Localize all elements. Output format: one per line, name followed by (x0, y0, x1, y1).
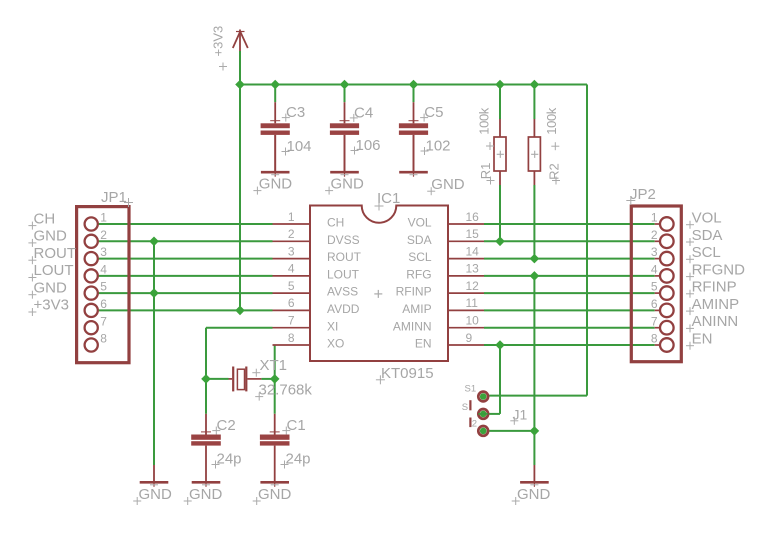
svg-text:RFINP: RFINP (692, 279, 737, 296)
svg-text:GND: GND (259, 176, 293, 193)
svg-text:SDA: SDA (407, 233, 432, 247)
svg-text:6: 6 (100, 297, 107, 311)
svg-text:RFG: RFG (406, 268, 431, 282)
svg-text:JP1: JP1 (101, 189, 127, 206)
svg-text:10: 10 (466, 314, 480, 328)
svg-text:5: 5 (651, 280, 658, 294)
svg-text:GND: GND (189, 486, 223, 503)
svg-text:6: 6 (651, 297, 658, 311)
svg-text:LOUT: LOUT (34, 262, 74, 279)
svg-text:AMIP: AMIP (402, 302, 431, 316)
svg-text:100k: 100k (476, 107, 491, 134)
svg-text:RFINP: RFINP (396, 285, 432, 299)
svg-text:SCL: SCL (408, 250, 432, 264)
svg-text:DVSS: DVSS (327, 233, 360, 247)
svg-text:C2: C2 (217, 417, 236, 434)
svg-text:104: 104 (287, 138, 312, 155)
svg-text:7: 7 (651, 314, 658, 328)
svg-text:106: 106 (356, 137, 381, 154)
svg-text:AMINN: AMINN (393, 319, 432, 333)
svg-text:EN: EN (415, 337, 432, 351)
svg-text:24p: 24p (217, 451, 242, 468)
svg-text:S: S (462, 402, 468, 413)
svg-text:+3V3: +3V3 (211, 26, 226, 57)
svg-text:RFGND: RFGND (692, 261, 745, 278)
svg-text:1: 1 (288, 210, 295, 224)
svg-text:2: 2 (472, 418, 477, 429)
svg-text:9: 9 (466, 331, 473, 345)
svg-text:CH: CH (34, 210, 56, 227)
svg-text:XO: XO (327, 337, 344, 351)
svg-text:16: 16 (466, 210, 480, 224)
svg-text:2: 2 (288, 227, 295, 241)
svg-text:3: 3 (288, 244, 295, 258)
svg-text:XI: XI (327, 319, 338, 333)
svg-text:2: 2 (100, 228, 107, 242)
svg-text:GND: GND (431, 176, 465, 193)
svg-text:1: 1 (651, 211, 658, 225)
svg-text:LOUT: LOUT (327, 268, 360, 282)
svg-text:KT0915: KT0915 (381, 365, 434, 382)
svg-text:12: 12 (466, 279, 480, 293)
svg-text:AMINP: AMINP (692, 296, 740, 313)
svg-text:2: 2 (651, 228, 658, 242)
svg-text:SCL: SCL (692, 244, 721, 261)
svg-text:+3V3: +3V3 (34, 297, 69, 314)
svg-text:4: 4 (288, 262, 295, 276)
svg-text:8: 8 (651, 332, 658, 346)
svg-text:ROUT: ROUT (327, 250, 362, 264)
svg-text:13: 13 (466, 262, 480, 276)
svg-text:AVDD: AVDD (327, 302, 360, 316)
svg-text:ANINN: ANINN (692, 313, 739, 330)
svg-text:24p: 24p (286, 451, 311, 468)
svg-text:5: 5 (288, 279, 295, 293)
svg-text:ROUT: ROUT (34, 245, 77, 262)
svg-text:GND: GND (34, 279, 68, 296)
svg-text:GND: GND (517, 486, 551, 503)
svg-text:1: 1 (100, 211, 107, 225)
svg-text:102: 102 (426, 138, 451, 155)
svg-text:C5: C5 (424, 104, 443, 121)
svg-text:S1: S1 (465, 384, 477, 395)
svg-text:XT1: XT1 (260, 357, 288, 374)
svg-text:15: 15 (466, 227, 480, 241)
svg-text:CH: CH (327, 216, 344, 230)
svg-text:SDA: SDA (692, 227, 723, 244)
svg-text:EN: EN (692, 331, 713, 348)
svg-text:GND: GND (331, 176, 365, 193)
svg-text:VOL: VOL (692, 210, 722, 227)
svg-text:IC1: IC1 (377, 190, 400, 207)
svg-text:4: 4 (651, 263, 658, 277)
svg-text:GND: GND (34, 228, 68, 245)
svg-text:5: 5 (100, 280, 107, 294)
svg-text:C1: C1 (287, 417, 306, 434)
svg-text:11: 11 (466, 296, 479, 310)
svg-text:C3: C3 (286, 104, 305, 121)
svg-text:8: 8 (100, 332, 107, 346)
svg-text:7: 7 (100, 314, 107, 328)
svg-text:R2: R2 (546, 163, 561, 180)
svg-text:C4: C4 (354, 104, 373, 121)
svg-text:3: 3 (100, 245, 107, 259)
svg-text:GND: GND (139, 486, 173, 503)
svg-text:3: 3 (651, 245, 658, 259)
svg-text:14: 14 (466, 244, 480, 258)
svg-text:7: 7 (288, 314, 295, 328)
svg-text:VOL: VOL (408, 216, 432, 230)
svg-text:100k: 100k (544, 107, 559, 134)
svg-text:AVSS: AVSS (327, 285, 358, 299)
svg-text:32.768k: 32.768k (259, 382, 313, 399)
svg-text:6: 6 (288, 296, 295, 310)
svg-text:4: 4 (100, 263, 107, 277)
svg-text:GND: GND (258, 486, 292, 503)
svg-text:8: 8 (288, 331, 295, 345)
